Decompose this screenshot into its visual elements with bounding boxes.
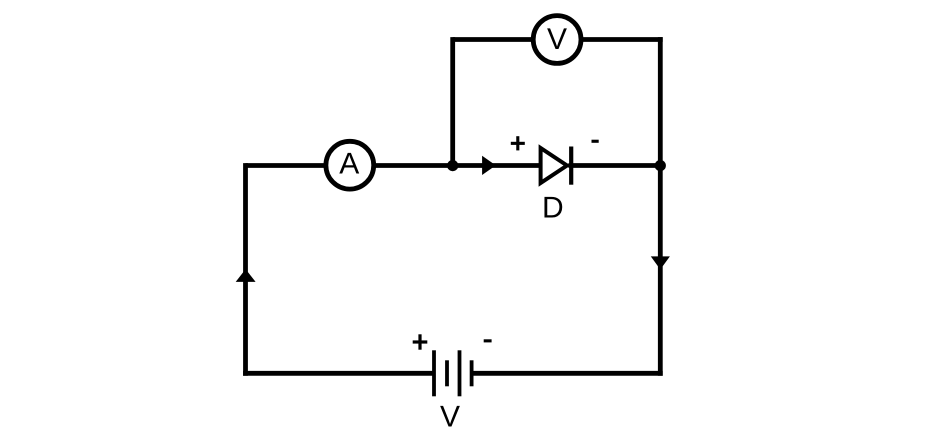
wire vertical voltmeter tap (node to top wire) — [450, 37, 455, 165]
wire top-right horizontal (voltmeter to right rail) — [570, 37, 663, 42]
wire left vertical rail — [243, 163, 248, 376]
ammeter A — [326, 141, 374, 189]
wire middle horizontal (left rail to diode anode) — [246, 163, 541, 168]
svg-text:A: A — [339, 148, 359, 181]
current arrow on middle wire (pointing right) — [482, 156, 496, 175]
current arrow on left rail (pointing up) — [236, 269, 256, 282]
label - (battery negative) — [484, 339, 492, 342]
svg-text:V: V — [440, 400, 460, 433]
node left junction — [447, 160, 458, 171]
label + (diode anode) — [511, 136, 525, 150]
wire right vertical rail — [658, 37, 663, 376]
voltmeter V — [533, 16, 581, 64]
current arrow on right rail (pointing down) — [651, 256, 670, 269]
wire bottom-left horizontal (left rail to battery) — [243, 371, 434, 376]
wire top-left horizontal (node to voltmeter) — [453, 37, 545, 42]
wire bottom-right horizontal (battery to right rail) — [472, 371, 663, 376]
svg-text:V: V — [547, 23, 567, 56]
svg-text:D: D — [542, 191, 564, 224]
label + (battery positive) — [413, 334, 428, 349]
label - (diode cathode) — [592, 140, 599, 143]
battery V — [434, 350, 472, 396]
node right junction — [655, 160, 666, 171]
wire middle horizontal (diode cathode to right rail) — [568, 163, 662, 168]
diode D — [541, 147, 572, 185]
